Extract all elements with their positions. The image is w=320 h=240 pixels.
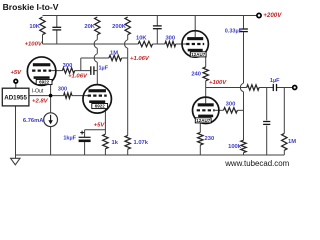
svg-text:1.07k: 1.07k	[134, 140, 149, 146]
svg-text:+2.8V: +2.8V	[32, 99, 49, 105]
svg-text:200K: 200K	[112, 24, 127, 30]
svg-text:1kµF: 1kµF	[63, 135, 76, 141]
svg-text:300: 300	[63, 63, 73, 69]
svg-text:0.33µF: 0.33µF	[225, 29, 243, 35]
svg-text:+5V: +5V	[94, 123, 106, 129]
svg-text:+100V: +100V	[209, 80, 227, 86]
svg-text:1M: 1M	[288, 139, 296, 145]
svg-text:1k: 1k	[112, 140, 119, 146]
svg-text:1µF: 1µF	[99, 65, 109, 71]
svg-text:10K: 10K	[29, 24, 40, 30]
svg-text:230: 230	[205, 136, 215, 142]
svg-text:I-Out: I-Out	[32, 88, 44, 94]
svg-text:6922: 6922	[39, 80, 50, 85]
svg-text:1M: 1M	[110, 51, 118, 57]
svg-text:+100V: +100V	[25, 42, 43, 48]
svg-text:20K: 20K	[84, 24, 95, 30]
svg-text:10K: 10K	[136, 35, 147, 41]
svg-text:300: 300	[58, 87, 67, 93]
svg-text:12AU7: 12AU7	[191, 52, 206, 57]
svg-text:12AU7: 12AU7	[196, 118, 211, 123]
svg-text:+200V: +200V	[263, 12, 282, 19]
svg-text:www.tubecad.com: www.tubecad.com	[224, 159, 289, 168]
svg-text:6.76mA: 6.76mA	[23, 118, 44, 124]
svg-text:+1.06V: +1.06V	[130, 56, 150, 62]
svg-text:240: 240	[191, 72, 201, 78]
svg-text:+1.06V: +1.06V	[68, 74, 88, 80]
svg-text:+5V: +5V	[10, 70, 22, 76]
svg-text:100k: 100k	[228, 144, 242, 150]
svg-text:1µF: 1µF	[270, 78, 280, 84]
svg-text:300: 300	[165, 35, 175, 41]
svg-text:300: 300	[226, 102, 236, 108]
svg-text:AD1955: AD1955	[4, 94, 27, 101]
svg-text:6922: 6922	[95, 104, 106, 109]
svg-text:Broskie I-to-V: Broskie I-to-V	[3, 2, 59, 12]
